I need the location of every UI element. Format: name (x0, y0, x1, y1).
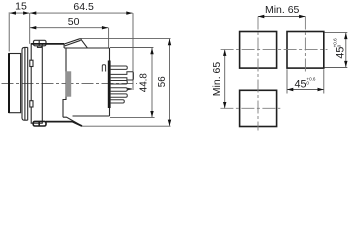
bottom mounting screw (33, 121, 46, 126)
panel cutout square A (240, 32, 277, 69)
notch on holder front (30, 60, 33, 66)
svg-text:50: 50 (68, 16, 80, 28)
svg-text:Min. 65: Min. 65 (211, 62, 223, 97)
dim Min.65 top dimension line (258, 16, 305, 18)
dim 44.8 dimension line (110, 48, 155, 118)
terminal pin 2 with wide tab (111, 72, 134, 80)
dim Min.65 left arrowheads (223, 50, 226, 109)
terminal pin 3 (111, 81, 128, 85)
terminal pin 5 (111, 94, 128, 97)
dim 45 right label with tolerance (rotated) (332, 38, 346, 59)
terminal plate (108, 61, 111, 109)
dim 45 right arrowheads (344, 33, 347, 67)
rear boss (102, 65, 105, 72)
mounting bracket (63, 117, 82, 126)
terminal pin 4 with solder tip (111, 88, 132, 91)
svg-text:Min. 65: Min. 65 (265, 4, 300, 16)
centerline horizontal row A-B (221, 49, 328, 51)
dim 15 dimension line (9, 12, 30, 51)
terminal pin 6 (111, 100, 125, 103)
latch gray bar (66, 71, 72, 96)
terminal pin 1 (111, 66, 128, 69)
bezel ring (22, 47, 28, 120)
panel cutout square C (240, 90, 277, 126)
switch body top line (31, 44, 109, 48)
dim 45 bottom extension lines (287, 69, 324, 93)
svg-text:64.5: 64.5 (73, 1, 94, 13)
centerline vertical column B (304, 17, 306, 74)
dim Min.65 left dimension line (224, 50, 226, 109)
dim 50 dimension line (30, 28, 109, 48)
dim Min.65 top arrowheads (258, 15, 305, 18)
release lever (64, 39, 87, 48)
dim 45 bottom arrowheads (287, 88, 324, 91)
centerline horizontal row C (220, 107, 280, 109)
dim 50 arrowheads (30, 26, 108, 29)
dim 64.5 dimension line (30, 13, 133, 90)
bracket plate thick (46, 122, 82, 127)
svg-text:0: 0 (337, 44, 342, 47)
svg-text:45: 45 (295, 79, 307, 91)
svg-text:56: 56 (157, 76, 168, 87)
panel cutout square B (287, 32, 324, 69)
svg-text:0: 0 (306, 81, 309, 86)
socket body (63, 48, 110, 117)
svg-text:15: 15 (15, 1, 27, 13)
dim 56 dimension line (81, 38, 171, 126)
centerline main side view (2, 83, 138, 85)
centerline vertical column A-C (257, 17, 259, 131)
dim 56 arrowheads (168, 39, 171, 126)
button cap (9, 54, 20, 113)
dim 64.5 arrowheads (30, 11, 133, 14)
dim 45 right extension lines (325, 32, 348, 67)
top mounting screw (34, 40, 47, 47)
button cap front face thick line (8, 53, 10, 113)
holder adapter (30, 44, 43, 123)
dim 15 arrowheads (10, 11, 30, 14)
svg-text:44.8: 44.8 (139, 73, 150, 93)
dim 44.8 arrowheads (150, 48, 153, 117)
